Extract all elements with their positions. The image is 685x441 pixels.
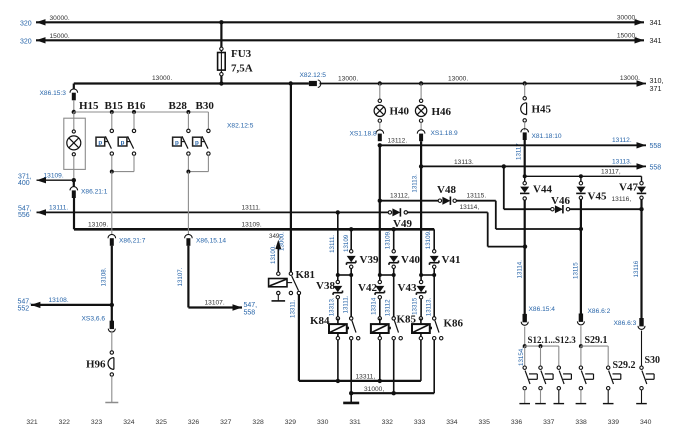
svg-text:13117,: 13117, <box>601 169 621 176</box>
svg-text:31000,: 31000, <box>364 386 384 393</box>
svg-text:V48: V48 <box>437 184 456 196</box>
svg-text:13112.: 13112. <box>388 137 408 144</box>
svg-text:328: 328 <box>252 419 264 426</box>
diode V42 (zener) <box>375 275 384 317</box>
svg-text:13100.: 13100. <box>270 245 277 264</box>
junction H15 output / 13109 branch <box>72 178 76 182</box>
ground (K81 coil) <box>272 295 286 301</box>
svg-text:330: 330 <box>317 419 329 426</box>
svg-text:V49: V49 <box>393 218 412 230</box>
connector XS1.18.8 <box>376 130 384 134</box>
svg-text:X86,15.14: X86,15.14 <box>196 237 226 244</box>
relay K85 <box>371 317 403 340</box>
svg-text:V38: V38 <box>316 280 335 292</box>
svg-text:13115.: 13115. <box>467 193 487 200</box>
wire 13000 left segment (thick) <box>74 82 309 84</box>
wire 13311 vertical (K81 output) <box>298 295 300 381</box>
svg-text:H15: H15 <box>79 100 99 112</box>
pressure switch B15 <box>96 112 114 172</box>
connector X86.21:1 <box>70 180 78 198</box>
connector XS1.18.9 <box>417 130 425 134</box>
svg-text:13114,: 13114, <box>460 204 480 211</box>
diode V47 <box>637 176 646 199</box>
svg-text:331: 331 <box>349 419 361 426</box>
wire 13108 vertical <box>111 246 113 305</box>
svg-text:V43: V43 <box>398 282 417 294</box>
junction 13112/V48 tee <box>378 199 382 203</box>
junction K84 coil on 13311 <box>336 379 340 383</box>
wire FU3-to-13000 <box>220 76 222 84</box>
wire V40 stub <box>393 229 395 249</box>
bus H15-B15-B16-B28-B30 <box>74 111 209 113</box>
wire X86.21:1 down to 13109 corner <box>73 198 75 229</box>
svg-text:336: 336 <box>511 419 523 426</box>
corner 13000 left end down to X86.15:3 <box>73 84 75 89</box>
svg-text:552: 552 <box>18 306 30 313</box>
wire 13116 vertical (V47 to X86.6:3) <box>640 200 642 319</box>
svg-text:13113.: 13113. <box>426 297 433 316</box>
corner 13109/V41 wire <box>433 229 435 249</box>
diode V40 (zener) <box>389 250 398 275</box>
svg-text:XS3,6.6: XS3,6.6 <box>82 316 106 323</box>
svg-text:13107.: 13107. <box>205 299 225 306</box>
junction 13113/H46 tee <box>419 164 423 168</box>
diode V46 <box>551 205 570 213</box>
junction S12.1 branch <box>523 344 527 348</box>
svg-text:13116: 13116 <box>633 260 640 277</box>
wire 13113 branch down <box>503 166 505 209</box>
svg-text:323: 323 <box>91 419 103 426</box>
wire X86.6:3 to S30 <box>641 331 643 366</box>
svg-text:324: 324 <box>123 419 135 426</box>
junction 13000/K81 <box>289 81 293 85</box>
svg-text:13112.: 13112. <box>612 137 632 144</box>
svg-text:371: 371 <box>650 84 662 93</box>
wire X86.15:4 to S12 branch <box>524 327 526 347</box>
wire 13109 (thick) <box>74 228 434 231</box>
svg-text:X86,21:7: X86,21:7 <box>119 237 146 244</box>
relay K86 <box>412 317 443 340</box>
wire 13115 vertical (V45 to X86.6:2) <box>580 200 582 314</box>
svg-text:K81: K81 <box>296 269 316 281</box>
wire V46 output to V47 foot <box>570 208 642 210</box>
wire X86.15:3 to bus <box>73 100 75 112</box>
wire 13000 right segment <box>320 80 647 86</box>
svg-text:X81.18:10: X81.18:10 <box>532 133 562 140</box>
svg-text:340: 340 <box>640 419 652 426</box>
svg-text:7,5A: 7,5A <box>231 63 253 75</box>
svg-text:556: 556 <box>18 212 30 219</box>
svg-text:558: 558 <box>650 164 662 171</box>
junction H40 on 13112 <box>378 143 382 147</box>
svg-text:H40: H40 <box>390 105 410 117</box>
svg-text:X82.12:5: X82.12:5 <box>227 122 254 129</box>
connector X86.6:3 <box>639 318 643 326</box>
svg-text:13108.: 13108. <box>49 297 69 304</box>
bus S29 branch <box>581 346 608 366</box>
wire 13107 to 547,558 (arrow) <box>188 304 242 310</box>
svg-text:332: 332 <box>382 419 394 426</box>
svg-text:S12.1...S12.3: S12.1...S12.3 <box>528 335 577 345</box>
svg-text:V40: V40 <box>401 254 420 266</box>
svg-text:13109.: 13109. <box>242 222 262 229</box>
junction 13109/V39 wire <box>349 227 353 231</box>
wire X81.18:10 down to 13117 <box>524 140 526 176</box>
wire B28/B30 down to X86.15.14 <box>187 172 189 235</box>
wire 13109 to 371,400 (arrow) <box>37 177 74 183</box>
junction B28 on bus <box>186 110 190 114</box>
svg-text:V41: V41 <box>442 254 461 266</box>
wire cell1 join bar <box>338 274 351 276</box>
svg-text:p: p <box>195 139 199 146</box>
svg-text:p: p <box>121 139 125 146</box>
svg-text:30000.: 30000. <box>617 15 637 22</box>
fuse FU3 7,5A <box>218 47 226 76</box>
diode V38 (zener) <box>333 275 342 317</box>
ground (S12.1) <box>519 403 530 405</box>
svg-text:V44: V44 <box>533 183 552 195</box>
wire cell2 join bar <box>380 274 394 276</box>
junction cell2 bar right <box>392 273 396 277</box>
svg-text:X86.15:4: X86.15:4 <box>529 306 556 313</box>
svg-text:K84: K84 <box>310 315 330 327</box>
wire 13114 jog <box>408 212 526 246</box>
svg-text:V42: V42 <box>358 282 377 294</box>
wire 30000-to-FU3 <box>220 22 222 47</box>
junction 13000/H45 <box>523 81 527 85</box>
diode V49 (in line 13111/13114) <box>388 208 407 216</box>
wire 30000 (net 30000., row 320-341) <box>36 19 644 25</box>
junction cell1 bar left <box>336 273 340 277</box>
relay contact K81 <box>289 272 300 295</box>
diode V48 <box>438 197 456 205</box>
svg-text:547,: 547, <box>244 302 258 309</box>
junction 13114 on V44 wire <box>523 244 527 248</box>
junction B28/B30 join <box>186 170 190 174</box>
wire cell2 right to K85 contact <box>393 275 395 317</box>
svg-text:13112: 13112 <box>385 299 392 316</box>
svg-text:15000.: 15000. <box>50 33 70 40</box>
svg-text:13314: 13314 <box>371 297 378 315</box>
ground (S12.2) <box>535 403 546 405</box>
svg-text:337: 337 <box>543 419 555 426</box>
svg-text:325: 325 <box>156 419 168 426</box>
junction V45 on 13117 <box>579 174 583 178</box>
wire 13111 (to V49) <box>37 209 390 215</box>
svg-text:321: 321 <box>26 419 38 426</box>
relay K84 <box>329 317 360 340</box>
junction B16 on bus <box>132 110 136 114</box>
svg-text:547,: 547, <box>18 298 32 305</box>
svg-text:B15: B15 <box>105 100 124 112</box>
svg-text:13154.: 13154. <box>518 347 525 366</box>
junction S12.2 branch <box>539 344 543 348</box>
wire K84 contact to 31000/ground <box>350 340 352 393</box>
svg-text:558: 558 <box>650 143 662 150</box>
junction cell1 bar right <box>349 273 353 277</box>
svg-text:13116,: 13116, <box>612 196 632 203</box>
svg-text:13108.: 13108. <box>101 267 108 286</box>
junction B15/B16 join <box>110 170 114 174</box>
svg-text:341: 341 <box>650 18 662 27</box>
svg-text:338: 338 <box>575 419 587 426</box>
svg-text:V45: V45 <box>588 191 607 203</box>
bus 13311 <box>299 380 421 382</box>
connector X82.12:5 (inline on 13000) <box>309 80 321 88</box>
junction 13117 start <box>523 174 527 178</box>
svg-text:13111.: 13111. <box>49 205 68 212</box>
svg-text:13109.: 13109. <box>44 172 64 179</box>
junction 13109/V40 wire <box>392 227 396 231</box>
svg-text:B30: B30 <box>196 100 215 112</box>
junction S29.1 branch <box>579 344 583 348</box>
svg-text:S29.2: S29.2 <box>613 360 636 371</box>
svg-text:335: 335 <box>479 419 491 426</box>
svg-text:X82.12:5: X82.12:5 <box>300 72 327 79</box>
svg-text:13313.: 13313. <box>329 297 336 316</box>
switch S12.2 <box>539 346 553 403</box>
wire 13112 down from H40 (cell2 left) <box>379 145 381 275</box>
wire 13100 with up-arrow to 349 <box>275 240 281 272</box>
wire 13115 jog <box>456 201 581 229</box>
svg-text:H96: H96 <box>86 359 106 371</box>
svg-text:S30: S30 <box>645 355 661 366</box>
wire 13114 vertical (V44 to X86.15:4) <box>524 200 526 314</box>
svg-text:334: 334 <box>446 419 458 426</box>
junction cell3 bar right <box>432 273 436 277</box>
wire V38 branch down <box>337 212 339 275</box>
svg-text:B16: B16 <box>127 100 146 112</box>
junction on 30000 at fuse <box>219 20 223 24</box>
wire cell3 join bar <box>421 274 434 276</box>
svg-text:13113.: 13113. <box>412 174 419 193</box>
diode V43 (zener) <box>416 275 425 317</box>
svg-text:327: 327 <box>220 419 232 426</box>
ground (H96) <box>105 402 118 404</box>
diode V44 <box>520 176 529 200</box>
svg-text:FU3: FU3 <box>231 48 252 60</box>
svg-text:XS1.18.8: XS1.18.8 <box>350 130 377 137</box>
svg-text:S29.1: S29.1 <box>585 335 608 346</box>
svg-text:13111.: 13111. <box>329 235 336 253</box>
wire 13117 <box>525 175 642 177</box>
junction FU3 on 13000 <box>219 81 223 85</box>
wire 13113 <box>421 163 646 169</box>
switch S12.1 <box>523 346 537 403</box>
lamp H40 <box>374 84 385 131</box>
connector X81.18:10 <box>521 129 529 133</box>
svg-text:13113.: 13113. <box>454 159 474 166</box>
junction 13113 branch (x504) <box>502 164 506 168</box>
svg-text:X86.15:3: X86.15:3 <box>40 90 67 97</box>
wire 13000 down to K81 contact <box>290 84 292 273</box>
wire 13113 down from H46 (cell3 left) <box>420 166 422 275</box>
svg-text:13000.: 13000. <box>620 75 640 82</box>
ground (S29.2) <box>603 403 614 405</box>
wire K85 contact to 31000 <box>393 340 395 393</box>
svg-text:13107.: 13107. <box>177 267 184 286</box>
wire 13112 <box>380 142 646 148</box>
lamp H15 in box <box>64 112 86 180</box>
ground (S29.1) <box>576 403 587 405</box>
buzzer H45 <box>521 84 527 131</box>
junction V46/V47 foot <box>639 207 643 211</box>
svg-text:15000.: 15000. <box>617 33 637 40</box>
buzzer H96 <box>108 351 114 403</box>
ground (S30) <box>636 403 647 405</box>
svg-text:V47: V47 <box>619 181 638 193</box>
diode V39 (zener) <box>347 250 356 275</box>
svg-text:13109: 13109 <box>343 234 350 252</box>
svg-text:400: 400 <box>18 180 30 187</box>
svg-text:13000.: 13000. <box>448 76 468 83</box>
junction K85 output on 31000 <box>392 391 396 395</box>
connector X86.15:3 <box>70 89 78 93</box>
svg-text:V46: V46 <box>551 195 570 207</box>
svg-text:13114.: 13114. <box>517 260 524 279</box>
svg-text:13311,: 13311, <box>356 374 376 381</box>
wire 13107 vertical <box>187 246 189 308</box>
svg-text:X86.6:3: X86.6:3 <box>614 320 637 327</box>
pressure switch B16 <box>118 112 136 172</box>
svg-text:K86: K86 <box>444 317 464 329</box>
wire cell1 right to K84 contact <box>350 275 352 317</box>
svg-text:13115: 13115 <box>573 262 580 279</box>
svg-text:13113.: 13113. <box>612 159 632 166</box>
connector X86.6:2 <box>579 314 583 322</box>
connector X86.21:7 <box>108 234 116 238</box>
wire B30 join to B28 <box>188 171 208 173</box>
junction cell3 bar left <box>419 273 423 277</box>
svg-text:13315: 13315 <box>412 297 419 315</box>
svg-text:p: p <box>175 139 179 146</box>
svg-text:B28: B28 <box>169 100 188 112</box>
svg-text:13109.: 13109. <box>385 230 392 249</box>
svg-text:322: 322 <box>59 419 71 426</box>
wire B16 join to B15 <box>112 171 134 173</box>
svg-text:339: 339 <box>608 419 620 426</box>
ground (31000) <box>343 393 359 403</box>
junction 13115 on V45 wire <box>579 227 583 231</box>
switch S12.3 <box>557 346 571 403</box>
junction 13108 branch <box>110 303 114 307</box>
pressure switch B28 <box>173 112 190 172</box>
svg-text:320: 320 <box>20 38 32 45</box>
wire K86 coil to 13311 <box>420 340 422 381</box>
svg-text:558: 558 <box>244 309 256 316</box>
junction 13000/H40 <box>378 81 382 85</box>
svg-text:333: 333 <box>414 419 426 426</box>
wire B15/B16 down to X86.21:7 <box>111 172 113 235</box>
wire XS1.18.9 down to 13113 <box>420 141 422 166</box>
svg-text:V39: V39 <box>360 254 379 266</box>
svg-text:13109.: 13109. <box>425 230 432 249</box>
wire K84 coil to 13311 <box>337 340 339 381</box>
wire K86 contact to 31000 <box>433 340 435 393</box>
junction 13000/H46 <box>419 81 423 85</box>
svg-text:H45: H45 <box>532 104 552 116</box>
switch S29.1 <box>579 346 593 403</box>
svg-text:320: 320 <box>20 20 32 27</box>
junction H15 on bus <box>72 110 76 114</box>
wire K85 coil to 13311 <box>379 340 381 381</box>
svg-text:326: 326 <box>188 419 200 426</box>
svg-text:X86.21:1: X86.21:1 <box>81 188 108 195</box>
svg-text:13000.: 13000. <box>338 76 358 83</box>
diode V41 (zener) <box>430 250 439 275</box>
svg-text:341: 341 <box>650 36 662 45</box>
lamp H46 <box>415 84 426 131</box>
pressure switch B30 <box>193 112 210 172</box>
wire V46 line <box>504 208 551 210</box>
junction 13111/V38 wire <box>336 210 340 214</box>
switch S29.2 <box>607 366 621 403</box>
diode V45 <box>576 176 585 199</box>
junction K84 output on 31000 <box>349 391 353 395</box>
svg-text:13111.: 13111. <box>242 205 261 212</box>
wire 13112-to-V48 <box>380 200 438 202</box>
connector X86.15.14 <box>185 234 193 238</box>
svg-text:13000.: 13000. <box>152 75 172 82</box>
wire 13108 to 547,552 (arrow) <box>31 302 112 308</box>
junction B15 on bus <box>110 110 114 114</box>
wire cell3 right to K86 contact <box>433 275 435 317</box>
ground (S12.3) <box>554 403 565 405</box>
svg-text:13111.: 13111. <box>343 295 350 313</box>
relay coil K81 <box>269 272 293 295</box>
svg-text:XS1.18.9: XS1.18.9 <box>431 130 458 137</box>
switch S30 <box>640 366 654 403</box>
svg-text:30000.: 30000. <box>50 15 70 22</box>
svg-text:H46: H46 <box>432 106 452 118</box>
svg-text:13109.: 13109. <box>88 221 108 228</box>
bus 31000 <box>351 392 434 394</box>
svg-text:p: p <box>98 139 102 146</box>
bus S12 branch <box>525 345 559 347</box>
svg-text:349,: 349, <box>269 233 281 240</box>
wire XS3.6.6 to H96 <box>111 331 113 351</box>
wire 15000 (net 15000.) <box>36 37 644 43</box>
junction cell2 bar left <box>378 273 382 277</box>
connector X86.15:4 <box>523 314 527 322</box>
wire X86.6:2 to S29 branch <box>580 326 582 346</box>
svg-text:13311.: 13311. <box>290 299 297 318</box>
svg-text:X86.6:2: X86.6:2 <box>588 308 611 315</box>
wire V39 stub <box>350 229 352 249</box>
svg-text:13112,: 13112, <box>390 193 410 200</box>
connector XS3.6.6 <box>108 305 115 332</box>
svg-text:329: 329 <box>285 419 297 426</box>
junction K85 coil on 13311 <box>378 379 382 383</box>
